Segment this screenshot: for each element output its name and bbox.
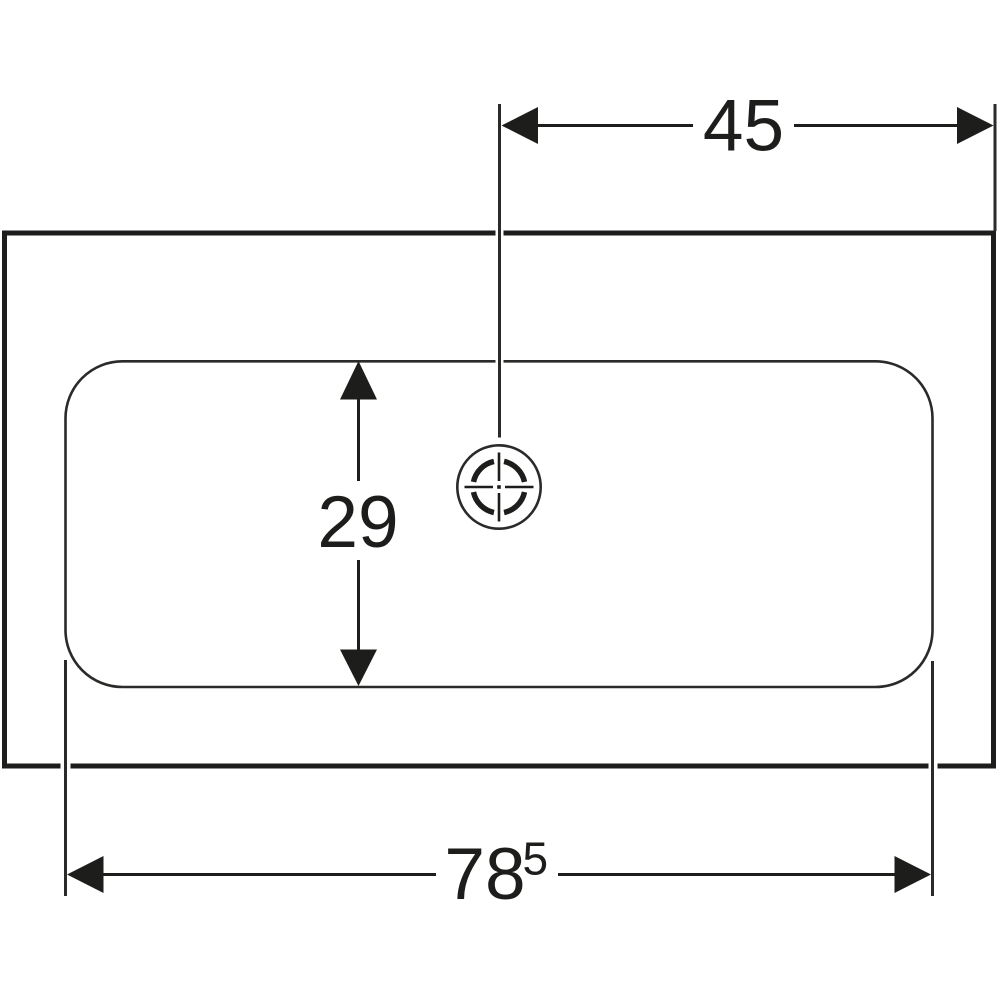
washbasin outer outline (top view)	[5, 233, 994, 766]
extension line bottom right	[931, 661, 934, 896]
svg-text:78: 78	[444, 834, 525, 915]
svg-text:45: 45	[703, 86, 784, 167]
vertical dimension 29 line (upper segment)	[357, 399, 360, 481]
dimension line 78.5 (left segment)	[102, 873, 436, 876]
white gaps where extension lines cross outlines	[61, 227, 938, 772]
dimension text 78	[444, 834, 525, 915]
arrowhead left of 78.5 dimension	[67, 856, 104, 893]
faucet hole outer circle	[457, 445, 540, 528]
vertical dimension 29 line (lower segment)	[357, 560, 360, 651]
dimension text 45	[703, 86, 784, 167]
faucet hole crosshair horizontal	[465, 486, 534, 489]
arrowhead down of 29 dimension	[340, 650, 377, 687]
dimension line 45 (left segment)	[536, 124, 693, 127]
extension line right edge up to top dimension	[994, 104, 997, 231]
faucet hole crosshair vertical	[498, 453, 501, 522]
faucet hole inner ring arcs	[473, 461, 524, 512]
faucet hole center dot	[497, 485, 501, 489]
arrowhead right of 45 dimension	[957, 107, 994, 144]
extension line from faucet hole up to top dimension	[498, 104, 501, 438]
dimension text superscript 5	[523, 833, 549, 885]
arrowhead right of 78.5 dimension	[895, 856, 932, 893]
svg-text:29: 29	[317, 482, 398, 563]
arrowhead left of 45 dimension	[502, 107, 539, 144]
extension line bottom left	[64, 660, 67, 896]
basin inner bowl (rounded rectangle)	[66, 361, 933, 687]
dimension line 78.5 (right segment)	[558, 873, 897, 876]
dimension text 29	[317, 482, 398, 563]
svg-text:5: 5	[523, 833, 549, 885]
arrowhead up of 29 dimension	[340, 361, 377, 400]
dimension line 45 (right segment)	[794, 124, 959, 127]
